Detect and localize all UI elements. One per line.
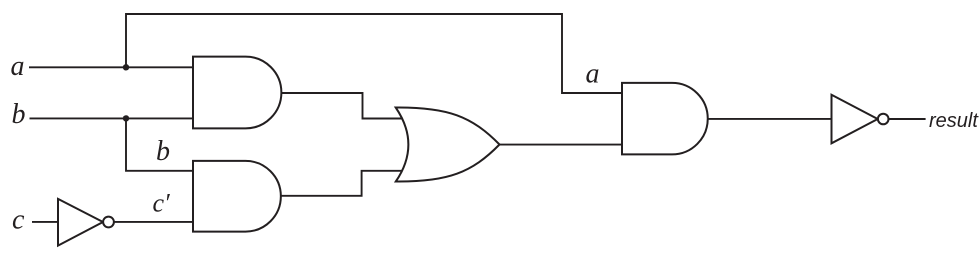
wire input a <box>29 66 194 68</box>
wire c' from inverter to AND U2 <box>114 221 194 223</box>
inverter U5 triangle (output stage) <box>832 95 878 144</box>
svg-text:c: c <box>12 205 25 236</box>
svg-text:result: result <box>929 110 979 132</box>
and-gate U1 (inputs a, b) <box>193 57 281 129</box>
wire AND U1 output to OR U4 top input <box>278 93 404 119</box>
svg-text:a: a <box>586 58 600 89</box>
junction dot on wire b <box>123 115 129 121</box>
and-gate U2 (inputs b, c') <box>193 161 281 232</box>
inverter U5 bubble <box>878 114 889 125</box>
and-gate U3 (inputs a, or-output) <box>622 83 708 154</box>
svg-text:c′: c′ <box>153 189 171 218</box>
junction dot on wire a <box>123 64 129 70</box>
svg-text:b: b <box>156 136 170 167</box>
or-gate U4 <box>396 107 500 181</box>
wire AND U3 output to inverter U5 <box>706 118 832 120</box>
wire input c <box>32 221 59 223</box>
inverter U0 triangle (input c) <box>58 199 103 246</box>
wire b branch down to AND U2 <box>126 118 194 170</box>
wire a branch to top rail and down to AND U3 <box>126 14 623 93</box>
svg-text:b: b <box>12 99 26 130</box>
inverter U0 bubble <box>103 217 114 228</box>
wire AND U2 output to OR U4 bottom input <box>278 171 404 196</box>
wire OR U4 output to AND U3 <box>497 144 623 146</box>
wire result output <box>888 118 925 120</box>
wire input b <box>30 117 195 119</box>
svg-text:a: a <box>11 51 25 82</box>
